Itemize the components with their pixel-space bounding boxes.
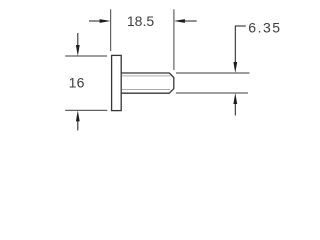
dim 16 top extension line xyxy=(65,55,107,57)
dim 6.35 leader jog xyxy=(235,26,246,63)
dim 6.35 lower arrowhead xyxy=(233,93,237,104)
dim 16 lower dimension line xyxy=(77,121,79,131)
dim 6.35 lower dimension line xyxy=(234,104,236,116)
dim 18.5 left dimension line xyxy=(89,20,101,22)
dim 18.5 left extension line xyxy=(110,9,112,51)
dim 6.35 upper arrowhead xyxy=(233,62,237,73)
dim 18.5 right arrowhead xyxy=(174,19,185,23)
svg-text:16: 16 xyxy=(69,74,85,90)
shaft tangent edge lower xyxy=(122,89,170,91)
dim 16 bottom extension line xyxy=(65,109,107,111)
shaft outline with rounded end xyxy=(121,73,174,93)
shaft tangent edge upper xyxy=(122,75,170,77)
dim 16 upper arrowhead xyxy=(76,45,80,56)
dim 16 upper dimension line xyxy=(77,33,79,46)
dim 18.5 right extension line xyxy=(173,9,175,70)
dim 6.35 top extension line xyxy=(176,72,250,74)
dim 6.35 bottom extension line xyxy=(176,92,248,94)
dim 18.5 left arrowhead xyxy=(100,19,111,23)
head flange rectangle of pin xyxy=(112,55,122,110)
svg-text:6.35: 6.35 xyxy=(248,20,281,36)
dim 16 lower arrowhead xyxy=(76,110,80,121)
dim 18.5 right dimension line xyxy=(184,20,197,22)
svg-text:18.5: 18.5 xyxy=(127,13,154,29)
